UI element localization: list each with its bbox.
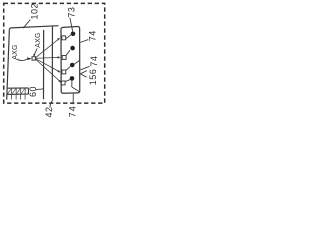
strip vertical legs (12, 88, 26, 100)
label 74 middle (89, 56, 99, 67)
port square 2 (62, 56, 66, 60)
module rounded rectangle (61, 27, 80, 94)
strip hatching diagonals (8, 88, 25, 94)
terminal dot 4 (70, 76, 75, 81)
leader for 42 (curved) (50, 99, 53, 107)
arrowhead 3 (58, 70, 61, 72)
leader AXG left (curved, arrow) (17, 59, 28, 61)
svg-text:73: 73 (66, 7, 76, 18)
label 73 (66, 7, 76, 18)
link square3-dot3 (66, 67, 70, 71)
svg-text:AXG: AXG (12, 44, 19, 59)
hatched strip 60 : top line (7, 87, 28, 89)
big box (housing) top edge (9, 26, 58, 30)
enclosure dashed box 102 (4, 3, 105, 103)
fan wire 2 (36, 56, 60, 59)
link square4-dot4 (65, 80, 70, 82)
fan wire 4 (36, 59, 61, 82)
label 60 (28, 86, 38, 97)
dot3 to plate diagonal (74, 60, 79, 64)
leader for 60 (tilde) (36, 89, 43, 90)
label AXG upper (35, 32, 42, 47)
big box left edge (7, 30, 10, 100)
leader 74 middle (81, 66, 90, 70)
fan wire 1 (36, 38, 60, 57)
label 74 top (88, 30, 98, 41)
terminal dot 3 (70, 63, 75, 68)
feed point square (32, 57, 36, 60)
leader 73 to dot1 (70, 18, 73, 32)
label 74 bottom (67, 105, 77, 117)
feed line right conductor (51, 26, 53, 99)
port square 4 (61, 81, 65, 85)
svg-text:74: 74 (88, 30, 98, 41)
terminal dot 1 (71, 32, 76, 37)
svg-text:42: 42 (44, 106, 54, 117)
svg-text:102: 102 (29, 3, 39, 20)
label AXG left (12, 44, 19, 59)
terminal dot 2 (70, 46, 75, 51)
port square 3 (62, 70, 66, 74)
leader AXG upper (34, 48, 38, 55)
link square2-dot2 (66, 50, 70, 56)
svg-text:74: 74 (89, 56, 99, 67)
label 42 (44, 106, 54, 117)
arrowhead 2 (57, 57, 59, 59)
arrowhead 4 (59, 80, 61, 82)
svg-text:156: 156 (88, 69, 98, 86)
arrowhead 156 (open) (80, 71, 87, 78)
label 102 (29, 3, 39, 20)
dot4 corner diagonal (72, 87, 80, 92)
svg-text:74: 74 (67, 105, 77, 117)
svg-text:60: 60 (28, 86, 38, 97)
leader 74 top (80, 40, 88, 43)
leader 74 bottom (72, 94, 74, 105)
feed line left conductor (43, 30, 45, 99)
arrowhead AXG left (27, 57, 32, 60)
link square1-dot1 (66, 34, 72, 39)
hatched strip bottom line (7, 93, 29, 95)
port square 1 (62, 36, 66, 40)
arrowhead AXG upper (33, 54, 35, 57)
svg-text:AXG: AXG (35, 32, 42, 47)
fan wire 3 (36, 59, 60, 72)
dot4 stub down (71, 80, 73, 87)
leader for 102 (23, 20, 30, 29)
hatched strip right end (27, 88, 29, 94)
arrowhead 1 (57, 38, 59, 40)
label 156 (88, 69, 98, 86)
